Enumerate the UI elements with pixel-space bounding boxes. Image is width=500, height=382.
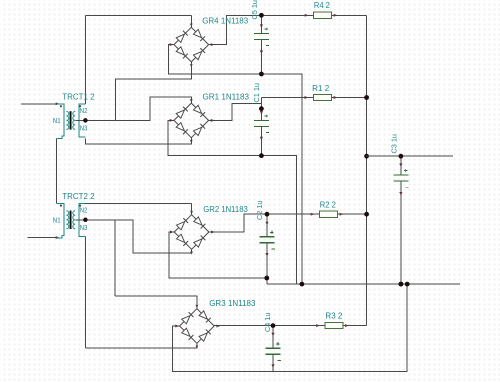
svg-text:GR2 1N1183: GR2 1N1183: [203, 204, 248, 214]
svg-text:TRCT1 2: TRCT1 2: [62, 93, 95, 102]
svg-text:N1: N1: [53, 118, 61, 125]
svg-text:GR4 1N1183: GR4 1N1183: [202, 16, 248, 26]
svg-text:R2 2: R2 2: [320, 200, 337, 209]
svg-text:N2: N2: [80, 108, 88, 115]
svg-text:N3: N3: [80, 126, 88, 133]
svg-text:C5 1u: C5 1u: [252, 0, 259, 20]
svg-text:R3 2: R3 2: [325, 311, 343, 320]
svg-text:N3: N3: [80, 225, 88, 232]
svg-text:GR1 1N1183: GR1 1N1183: [203, 92, 250, 102]
svg-text:C3 1u: C3 1u: [392, 134, 399, 154]
svg-text:R1 2: R1 2: [312, 84, 330, 93]
svg-text:TRCT2 2: TRCT2 2: [62, 192, 95, 201]
svg-text:GR3 1N1183: GR3 1N1183: [209, 298, 255, 308]
svg-text:C1 1u: C1 1u: [254, 83, 261, 103]
svg-text:N2: N2: [80, 208, 88, 215]
svg-text:C2 1u: C2 1u: [257, 200, 264, 220]
svg-text:C4 1u: C4 1u: [265, 312, 272, 332]
svg-text:R4 2: R4 2: [314, 1, 331, 10]
svg-text:N1: N1: [53, 218, 61, 225]
